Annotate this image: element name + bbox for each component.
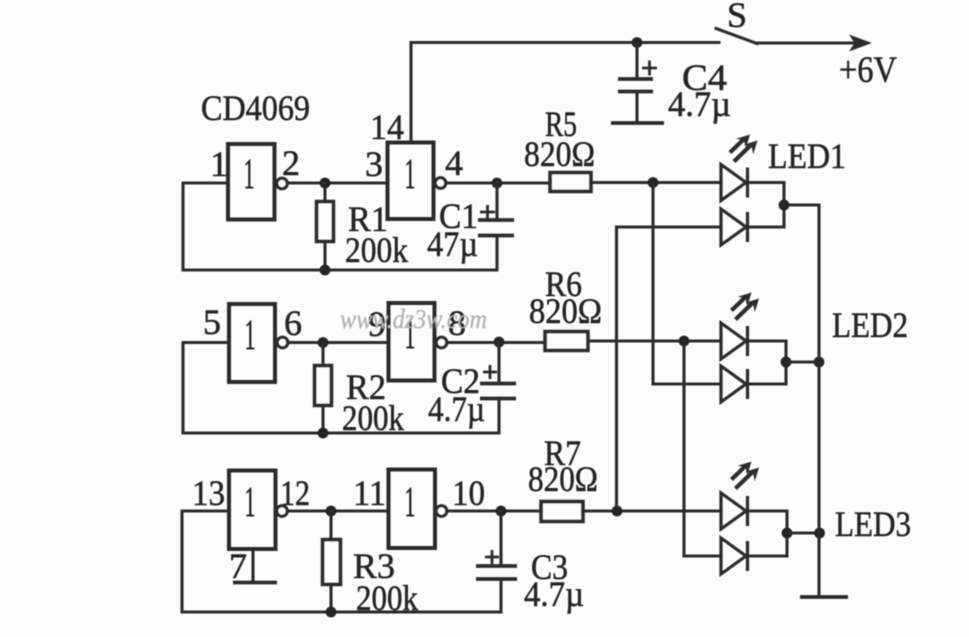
svg-text:4.7µ: 4.7µ bbox=[524, 574, 584, 614]
node: C1 top junction bbox=[492, 178, 503, 189]
wire: R5 to LED1 anode bbox=[591, 181, 721, 184]
svg-text:3: 3 bbox=[365, 144, 383, 184]
svg-text:1: 1 bbox=[405, 479, 416, 526]
pin 7 stub bbox=[251, 549, 254, 582]
resistor R6 bbox=[545, 332, 588, 351]
inverter U1 second gate box bbox=[388, 143, 434, 220]
svg-text:4: 4 bbox=[445, 143, 463, 183]
svg-text:820Ω: 820Ω bbox=[528, 459, 598, 499]
wire: LED3 cathodes join bbox=[748, 511, 788, 556]
node: LED1 branch junction bbox=[648, 177, 659, 188]
svg-text:2: 2 bbox=[282, 143, 300, 183]
inverter U1 third gate box bbox=[229, 304, 275, 382]
svg-text:820Ω: 820Ω bbox=[529, 291, 602, 331]
node: LED1 cathode junction bbox=[779, 200, 790, 211]
pin 7 ground bar bbox=[233, 581, 277, 585]
LED3 lower diode bbox=[721, 538, 748, 574]
svg-text:11: 11 bbox=[353, 473, 386, 513]
node: R3 top junction bbox=[326, 506, 337, 517]
wire: LED3 junction to rail bbox=[787, 531, 820, 534]
svg-text:S: S bbox=[727, 0, 747, 35]
node: LED3 cathode junction bbox=[782, 528, 793, 539]
svg-text:14: 14 bbox=[370, 107, 404, 147]
wire: pin10 to R7 bbox=[447, 509, 541, 512]
inverter U1 first gate box bbox=[228, 144, 275, 220]
wire: vertical R5-junction to LED2 lower anode bbox=[653, 183, 721, 385]
wire: LED1 junction to rail bbox=[784, 203, 819, 206]
capacitor C4 bbox=[611, 44, 664, 123]
switch S blade bbox=[716, 29, 757, 44]
node: rail junction at LED2 bbox=[814, 357, 825, 368]
svg-text:7: 7 bbox=[229, 546, 247, 586]
LED2 emission arrows bbox=[732, 293, 760, 320]
ground bbox=[800, 595, 848, 599]
LED1 upper diode bbox=[721, 165, 748, 201]
wire: LED1 cathodes join bbox=[748, 183, 785, 228]
wire: top supply rail bbox=[411, 41, 719, 44]
svg-text:1: 1 bbox=[244, 151, 255, 198]
svg-text:200k: 200k bbox=[356, 578, 418, 618]
node: R1 bottom junction bbox=[320, 265, 331, 276]
wire: pin13 input from feedback bbox=[182, 511, 229, 612]
wire: row3 bottom feedback bbox=[182, 580, 501, 613]
output bubble pin 6 bbox=[277, 337, 288, 348]
resistor R5 bbox=[550, 173, 591, 192]
wire: switch output to +6V bbox=[757, 41, 855, 44]
svg-text:LED1: LED1 bbox=[768, 136, 846, 176]
node: R1 top junction bbox=[320, 178, 331, 189]
resistor R1 bbox=[317, 183, 334, 270]
node: C2 top junction bbox=[494, 337, 505, 348]
svg-text:4.7µ: 4.7µ bbox=[668, 84, 731, 124]
output bubble pin 10 bbox=[436, 506, 447, 517]
svg-text:200k: 200k bbox=[345, 230, 408, 270]
svg-text:820Ω: 820Ω bbox=[524, 134, 595, 174]
output bubble pin 12 bbox=[277, 506, 288, 517]
node: LED3/LED1 branch junction bbox=[612, 506, 623, 517]
svg-text:200k: 200k bbox=[342, 398, 404, 438]
arrow head +6V bbox=[849, 35, 872, 52]
svg-text:+6V: +6V bbox=[839, 50, 897, 91]
svg-text:4.7µ: 4.7µ bbox=[428, 389, 485, 429]
svg-text:CD4069: CD4069 bbox=[201, 88, 310, 128]
wire: row1 bottom feedback bbox=[183, 236, 497, 271]
inverter U1 sixth gate box bbox=[389, 470, 436, 549]
capacitor C1 bbox=[478, 183, 514, 236]
LED1 emission arrows bbox=[730, 135, 758, 162]
capacitor C3 bbox=[476, 511, 517, 579]
wire: pin4 to R5 bbox=[446, 181, 550, 184]
svg-text:6: 6 bbox=[284, 303, 302, 343]
wire: pin5 input from feedback bbox=[183, 343, 229, 434]
wire: vertical R7-junction to LED1 lower anode bbox=[617, 227, 722, 511]
node: LED2 cathode junction bbox=[781, 357, 792, 368]
output bubble pin 4 bbox=[435, 178, 446, 189]
wire: pin 14 drop from rail bbox=[409, 43, 412, 144]
LED3 emission arrows bbox=[732, 462, 760, 489]
svg-text:LED3: LED3 bbox=[835, 504, 911, 544]
svg-text:47µ: 47µ bbox=[427, 224, 478, 264]
output bubble pin 2 bbox=[277, 178, 288, 189]
svg-text:10: 10 bbox=[452, 473, 485, 513]
node: R3 bottom junction bbox=[326, 607, 337, 618]
wire: R7 to LED3 anode bbox=[583, 509, 721, 512]
wire: LED2 junction to rail bbox=[786, 360, 819, 363]
wire: pin6 to pin9 bbox=[288, 341, 388, 344]
output bubble pin 8 bbox=[436, 337, 447, 348]
svg-text:13: 13 bbox=[192, 473, 225, 513]
svg-text:www.dz3w.com: www.dz3w.com bbox=[340, 304, 487, 334]
svg-text:LED2: LED2 bbox=[832, 305, 908, 345]
LED2 lower diode bbox=[721, 366, 748, 402]
capacitor C2 bbox=[480, 342, 516, 399]
wire: row2 bottom feedback bbox=[183, 399, 499, 434]
wire: cathode rail bbox=[817, 205, 820, 597]
node: supply junction at C4 bbox=[632, 37, 643, 48]
wire: LED2 cathodes join bbox=[748, 341, 787, 384]
wire: R6 to LED2 anode bbox=[588, 339, 721, 342]
wire: pin12 to pin11 bbox=[288, 509, 389, 512]
resistor R3 bbox=[323, 511, 341, 612]
resistor R2 bbox=[315, 343, 332, 434]
node: R2 top junction bbox=[318, 337, 329, 348]
wire: pin1 input from feedback bbox=[183, 183, 228, 270]
node: R2 bottom junction bbox=[318, 428, 329, 439]
LED3 upper diode bbox=[721, 493, 748, 529]
wire: pin2 to pin3 bbox=[288, 181, 388, 184]
inverter U1 fourth gate box bbox=[389, 303, 435, 381]
svg-text:5: 5 bbox=[203, 302, 221, 342]
svg-text:1: 1 bbox=[245, 479, 256, 526]
node: C3 top junction bbox=[496, 506, 507, 517]
LED2 upper diode bbox=[721, 323, 748, 359]
svg-text:1: 1 bbox=[210, 144, 228, 184]
svg-text:1: 1 bbox=[405, 151, 416, 198]
LED1 lower diode bbox=[721, 209, 748, 245]
wire: vertical R6-junction to LED3 lower anode bbox=[684, 341, 721, 556]
wire: pin8 to R6 bbox=[447, 341, 545, 344]
resistor R7 bbox=[541, 502, 583, 522]
svg-text:1: 1 bbox=[245, 312, 256, 359]
inverter U1 fifth gate box bbox=[229, 471, 276, 550]
node: LED2/LED3 branch junction bbox=[679, 336, 690, 347]
node: rail junction at LED3 bbox=[814, 528, 825, 539]
